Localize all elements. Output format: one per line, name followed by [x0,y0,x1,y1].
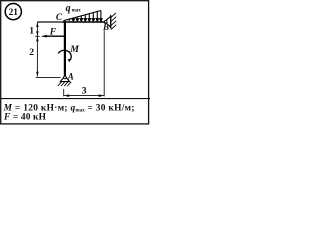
left dimension line [36,22,38,77]
bottom dimension arrowheads [64,94,104,97]
svg-text:3: 3 [82,85,87,96]
force F arrow [44,35,66,37]
tick at F level [35,35,39,37]
svg-text:21: 21 [9,8,19,18]
svg-text:M: M [69,44,79,55]
support B hatching [111,13,116,30]
distributed load arrows [69,12,102,22]
svg-text:1: 1 [29,26,34,37]
extension line at A level [36,77,61,79]
support at A: pin triangle [60,76,69,82]
svg-text:C: C [56,12,63,22]
svg-text:2: 2 [29,47,34,58]
svg-text:B: B [102,22,109,32]
background [0,0,150,126]
support A hatching [58,82,71,86]
svg-text:F = 40 кН: F = 40 кН [3,113,47,123]
bottom dimension line 3 [64,95,104,97]
support at B: pin triangle on wall [104,15,110,29]
svg-text:F: F [49,27,57,38]
extension line at C level to dimension line [37,21,64,23]
border frame [1,1,149,124]
bottom dimension extension tick [63,89,65,96]
dimension arrowheads left [36,22,39,76]
svg-text:max: max [72,8,82,13]
beam CB [63,21,105,23]
svg-text:q: q [66,3,71,14]
moment M arc [58,50,71,59]
extension line below B [103,31,105,97]
column CA [64,21,66,76]
distributed load slope line [64,11,101,21]
moment M arrowhead [68,59,71,62]
svg-text:A: A [67,71,74,81]
distributed load right edge [100,11,102,22]
separator line [0,98,150,100]
problem number circle 21 [5,4,21,20]
